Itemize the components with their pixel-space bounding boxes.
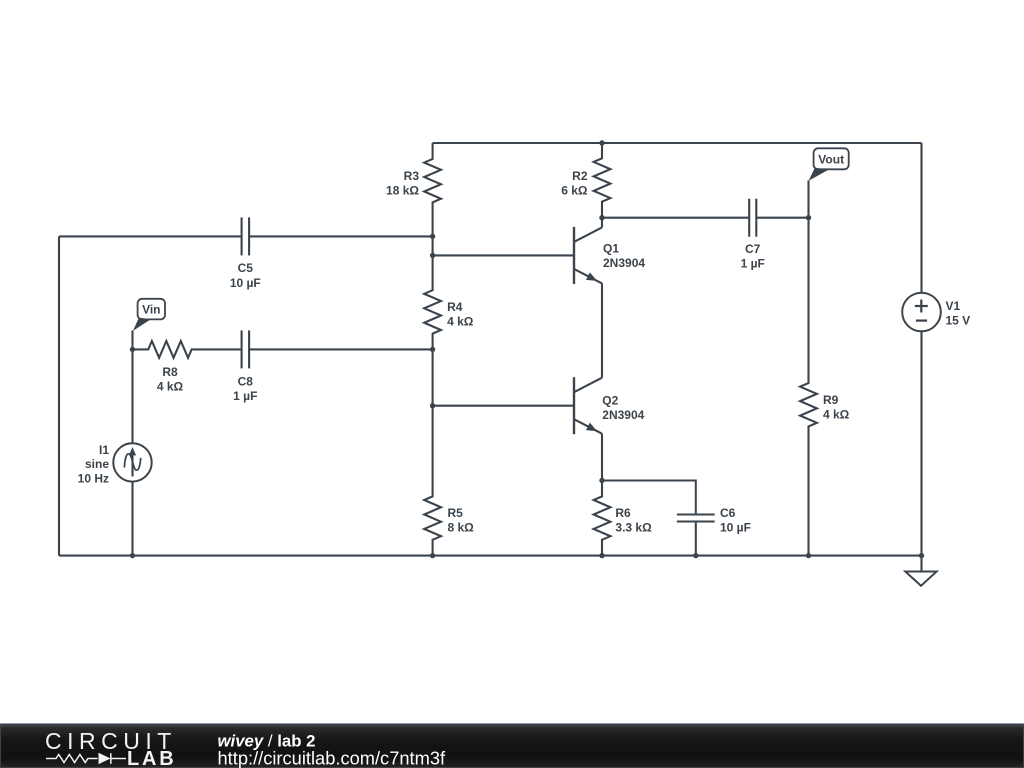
node Q1 base branch <box>430 253 435 258</box>
resistor R8 4 kOhm <box>133 341 242 394</box>
wire: Q2 emitter node to C6 branch <box>602 481 696 514</box>
capacitor C8 1 uF <box>233 330 257 403</box>
svg-text:10 µF: 10 µF <box>720 520 751 534</box>
node R9 bottom on ground rail <box>806 553 811 558</box>
capacitor C5 10 uF <box>230 217 261 290</box>
current source I1 sine 10 Hz <box>78 443 152 486</box>
wire: Q2 base lead <box>433 405 574 407</box>
transistor Q2 2N3904 NPN <box>574 377 645 480</box>
capacitor C7 1 uF <box>741 199 765 271</box>
node label flag Vout <box>809 148 849 181</box>
capacitor C6 10 uF <box>677 506 751 535</box>
svg-text:2N3904: 2N3904 <box>602 408 644 422</box>
node C6 bottom on ground rail <box>693 553 698 558</box>
svg-text:Q2: Q2 <box>602 393 618 407</box>
svg-text:Vout: Vout <box>818 153 844 167</box>
resistor R5 8 kOhm <box>424 406 474 556</box>
wire: C5 right lead <box>249 235 433 237</box>
wire: I1 bottom to ground rail <box>131 482 133 556</box>
wire: left rail vertical (C5 left plate down to ground rail) <box>58 236 60 555</box>
wire: between C5 node and Q1 base node <box>432 236 434 255</box>
node R2 top on supply rail <box>599 140 604 145</box>
node label flag Vin <box>133 299 165 331</box>
svg-text:15 V: 15 V <box>946 314 971 328</box>
node I1 bottom on ground rail <box>130 553 135 558</box>
node Q1 collector / C7 junction <box>599 215 604 220</box>
node Q2 base branch <box>430 403 435 408</box>
resistor R6 3.3 kOhm <box>594 481 652 556</box>
resistor R3 18 kOhm <box>386 143 441 236</box>
wire: C5 left lead <box>59 235 242 237</box>
svg-text:R2: R2 <box>572 169 588 183</box>
node Q2 emitter / R6 / C6 junction <box>599 478 604 483</box>
svg-text:10 µF: 10 µF <box>230 276 261 290</box>
node C5 / divider junction <box>430 234 435 239</box>
node C8 / divider junction <box>430 347 435 352</box>
node R5 bottom on ground rail <box>430 553 435 558</box>
svg-text:C5: C5 <box>238 261 254 275</box>
svg-text:Q1: Q1 <box>603 242 619 256</box>
node Vin / R8 junction <box>130 347 135 352</box>
wire: bottom ground rail <box>59 555 922 557</box>
voltage source V1 15 V <box>902 293 970 332</box>
wire: top rail down to V1 plus terminal <box>920 143 922 293</box>
svg-text:http://circuitlab.com/c7ntm3f: http://circuitlab.com/c7ntm3f <box>218 747 447 768</box>
wire: between C8 node and Q2 base node <box>432 349 434 405</box>
svg-text:10 Hz: 10 Hz <box>78 471 109 485</box>
wire: V1 minus terminal down to ground rail <box>920 331 922 555</box>
svg-text:C7: C7 <box>745 242 761 256</box>
svg-text:R3: R3 <box>404 169 420 183</box>
svg-text:C6: C6 <box>720 506 736 520</box>
wire: Q1 collector node to C7 <box>602 217 749 219</box>
node R6 bottom on ground rail <box>599 553 604 558</box>
footer bar <box>0 725 1024 768</box>
resistor R2 6 kOhm <box>561 143 610 218</box>
svg-text:6 kΩ: 6 kΩ <box>561 183 588 197</box>
svg-text:18 kΩ: 18 kΩ <box>386 183 419 197</box>
svg-text:3.3 kΩ: 3.3 kΩ <box>615 520 652 534</box>
wire: Vin node down to I1 top <box>131 349 133 443</box>
svg-text:2N3904: 2N3904 <box>603 256 645 270</box>
svg-text:R9: R9 <box>823 393 839 407</box>
svg-text:Vin: Vin <box>142 303 160 317</box>
wire: Vin flag stub to node <box>131 331 133 350</box>
svg-text:I1: I1 <box>99 443 109 457</box>
svg-text:R5: R5 <box>448 506 464 520</box>
resistor R4 4 kOhm <box>424 255 474 349</box>
svg-text:1 µF: 1 µF <box>233 389 257 403</box>
svg-text:1 µF: 1 µF <box>741 257 765 271</box>
svg-text:4 kΩ: 4 kΩ <box>157 380 184 394</box>
wire: C6 bottom lead to ground rail <box>695 523 697 556</box>
svg-text:R8: R8 <box>162 365 178 379</box>
wire: Q1 base lead <box>433 254 574 256</box>
wire: top supply rail <box>433 142 922 144</box>
svg-text:4 kΩ: 4 kΩ <box>823 407 850 421</box>
svg-text:C8: C8 <box>238 375 254 389</box>
CircuitLab logo resistor-diode glyph <box>46 753 126 764</box>
svg-text:R4: R4 <box>447 300 463 314</box>
wire: C8 right lead to divider column <box>249 348 433 350</box>
wire: Vout flag stub down to C7 node <box>807 180 809 217</box>
node ground junction <box>919 553 924 558</box>
node C7 / Vout / R9 junction <box>806 215 811 220</box>
wire: C7 to Vout node <box>756 217 808 219</box>
svg-text:LAB: LAB <box>127 748 177 768</box>
svg-text:4 kΩ: 4 kΩ <box>447 315 474 329</box>
resistor R9 4 kOhm <box>800 218 850 556</box>
svg-text:R6: R6 <box>615 506 631 520</box>
svg-text:sine: sine <box>85 457 109 471</box>
svg-text:V1: V1 <box>946 299 961 313</box>
ground symbol <box>905 556 936 586</box>
transistor Q1 2N3904 NPN <box>574 218 645 284</box>
svg-text:8 kΩ: 8 kΩ <box>448 520 475 534</box>
wire: Q1 emitter to Q2 collector <box>601 283 603 377</box>
